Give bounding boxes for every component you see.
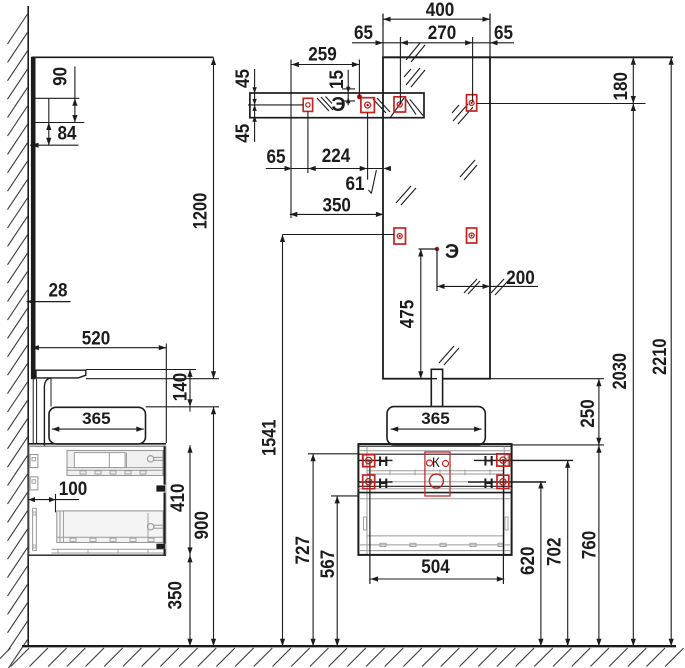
mirror hatch d	[460, 160, 475, 177]
faucet side view	[36, 370, 86, 378]
svg-text:H: H	[483, 475, 493, 491]
mirror socket dot	[435, 247, 439, 251]
mirror red square top-left	[394, 97, 406, 112]
mirror red square bottom-left	[394, 228, 406, 244]
hinge drop line right	[502, 461, 504, 585]
mount row line 2	[358, 481, 392, 483]
svg-text:520: 520	[82, 329, 111, 350]
mirror side view (black bar)	[31, 57, 35, 378]
svg-text:140: 140	[171, 373, 192, 402]
svg-text:2210: 2210	[650, 338, 671, 375]
svg-text:350: 350	[166, 581, 187, 610]
cabinet side view details	[29, 446, 166, 555]
svg-text:567: 567	[318, 550, 339, 579]
svg-text:90: 90	[50, 67, 71, 86]
svg-text:15: 15	[327, 70, 348, 89]
svg-text:H: H	[378, 453, 388, 469]
svg-text:270: 270	[428, 23, 457, 44]
svg-text:45: 45	[233, 123, 254, 142]
svg-text:410: 410	[168, 483, 189, 512]
basin front view	[387, 407, 485, 445]
front red square L2	[363, 475, 375, 489]
top wall reference line	[32, 56, 214, 58]
front red square L1	[363, 455, 375, 467]
basin side view	[49, 407, 146, 444]
svg-text:28: 28	[49, 281, 68, 302]
mirror bottom extension line	[86, 378, 219, 380]
svg-text:Э: Э	[445, 241, 459, 263]
plan bar hatch 3	[405, 97, 416, 114]
supply pipe lines below mirror	[32, 379, 34, 444]
plan bar	[250, 93, 424, 118]
svg-text:1200: 1200	[191, 193, 212, 230]
hinge drop line left	[369, 461, 371, 585]
mirror hatch c	[453, 104, 468, 121]
svg-text:900: 900	[192, 511, 213, 540]
front red center rect	[425, 452, 450, 496]
mirror hatch e	[396, 186, 411, 203]
svg-text:250: 250	[578, 399, 599, 428]
svg-text:620: 620	[518, 546, 539, 575]
plan bar hatch 1	[317, 98, 329, 111]
wall line (left)	[27, 6, 29, 646]
mirror front view	[383, 57, 490, 378]
svg-text:760: 760	[579, 531, 600, 560]
svg-text:1541: 1541	[260, 419, 281, 456]
cabinet front gray details	[366, 446, 368, 554]
mirror hatch a0	[406, 43, 420, 60]
cabinet front outline	[358, 444, 511, 555]
svg-text:65: 65	[267, 147, 286, 168]
svg-text:84: 84	[58, 124, 77, 145]
countertop side view	[29, 443, 166, 445]
svg-text:702: 702	[545, 537, 566, 566]
cabinet side bottom	[29, 554, 166, 556]
svg-text:2030: 2030	[610, 353, 631, 390]
wall hatch	[8, 14, 28, 668]
svg-text:259: 259	[308, 45, 337, 66]
svg-text:224: 224	[322, 146, 351, 167]
svg-text:65: 65	[354, 23, 373, 44]
mirror red square bottom-right	[467, 228, 477, 243]
front red square R1	[497, 454, 510, 466]
svg-text:365: 365	[82, 409, 111, 428]
mount row line 1	[358, 459, 392, 461]
plan bar hatch 2	[373, 99, 386, 113]
front red square R2	[497, 475, 509, 488]
cabinet front drawer separation	[358, 485, 511, 487]
floor hatch	[0, 648, 684, 667]
cabinet side front edge	[164, 446, 166, 484]
svg-text:365: 365	[421, 409, 450, 428]
floor line	[22, 645, 676, 647]
svg-text:H: H	[483, 452, 493, 468]
svg-text:180: 180	[611, 72, 632, 101]
svg-text:45: 45	[233, 69, 254, 88]
faucet front view	[431, 369, 442, 406]
mirror hatch a	[406, 68, 420, 85]
plan bar red square 2	[361, 98, 375, 113]
cabinet front apron line	[358, 453, 511, 455]
svg-text:61: 61	[346, 174, 365, 195]
svg-text:475: 475	[398, 299, 419, 328]
svg-text:504: 504	[421, 557, 450, 578]
svg-text:Э: Э	[331, 94, 345, 116]
svg-text:400: 400	[426, 0, 455, 21]
svg-text:100: 100	[59, 479, 88, 500]
plan bar red square 1	[303, 98, 312, 111]
svg-text:H: H	[378, 475, 388, 491]
plan bar red dot	[357, 94, 362, 99]
mirror red square top-right	[467, 95, 477, 111]
svg-text:727: 727	[293, 536, 314, 565]
svg-text:К: К	[432, 455, 440, 470]
mirror edge extensions	[382, 14, 384, 57]
mirror hatch g	[439, 346, 454, 363]
cabinet front top lines	[358, 443, 511, 445]
mirror hatch f	[464, 279, 477, 293]
svg-text:350: 350	[322, 196, 351, 217]
